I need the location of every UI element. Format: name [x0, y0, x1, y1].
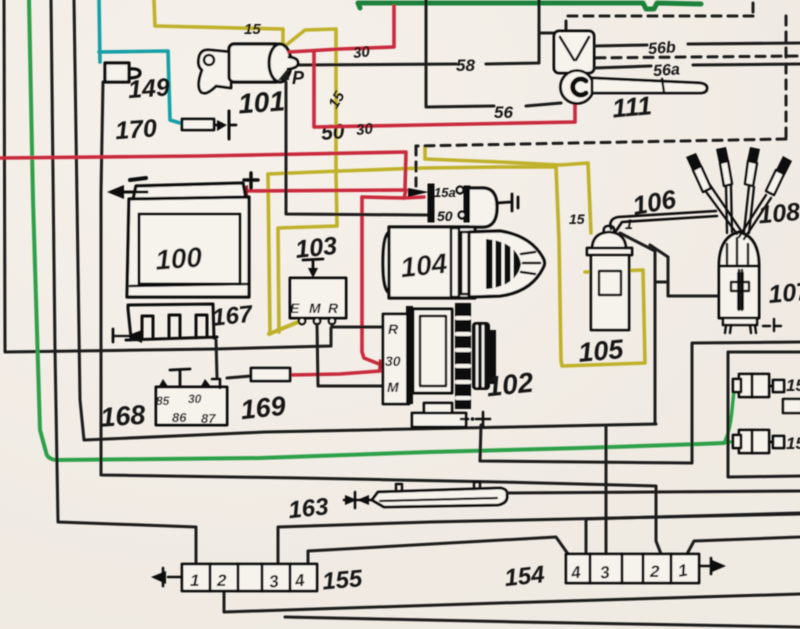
alternator 102 mounting foot: [424, 403, 452, 414]
svg-text:85: 85: [156, 394, 170, 408]
wire terminal 1 of 105 down to distributor body: [620, 233, 719, 424]
svg-text:2: 2: [649, 562, 660, 581]
svg-text:157: 157: [786, 434, 800, 453]
alternator 102 body: [406, 306, 413, 404]
svg-text:111: 111: [611, 90, 653, 123]
battery 100: [127, 183, 249, 297]
arrowhead black into starter terminal 15a: [408, 188, 429, 197]
relay 168 box: [156, 387, 227, 425]
svg-text:M: M: [387, 379, 399, 395]
wire left vertical 3 (to node of suppressor 105 line): [74, 0, 656, 440]
wire row to 154 pin4 from right edge: [586, 513, 800, 554]
svg-text:86: 86: [172, 410, 187, 425]
svg-text:155: 155: [321, 565, 364, 595]
svg-text:105: 105: [577, 334, 625, 368]
svg-text:30: 30: [352, 43, 371, 62]
wire row to 154 pin1 from right edge: [687, 537, 800, 554]
svg-text:50: 50: [320, 120, 345, 145]
connector 150: [733, 374, 784, 397]
regulator 103 terminals: [299, 318, 335, 324]
regulator 103 box: [290, 278, 346, 318]
wire red from resistor 169 to alternator: [290, 371, 380, 375]
wire yellow 15 from coil over to vertical run: [278, 29, 337, 332]
alternator 102 pulley: [472, 322, 490, 390]
spark plug boots 108: [693, 161, 784, 195]
alternator 102 rectifier ladder: [455, 303, 471, 409]
svg-text:102: 102: [485, 367, 535, 403]
svg-text:2: 2: [216, 571, 227, 590]
svg-text:168: 168: [99, 400, 146, 433]
wire red 30 branch to turn switch 111: [314, 51, 575, 127]
suppressor capacitor 105: [587, 226, 632, 330]
high tension cable 106 to distributor: [610, 211, 716, 229]
wire yellow into regulator 103 terminal E: [269, 322, 298, 334]
wire yellow 15 horizontal to regulator side: [268, 175, 270, 334]
svg-text:1: 1: [625, 216, 633, 232]
wire yellow lower row to component 105 area: [268, 167, 645, 366]
svg-text:R: R: [388, 321, 399, 337]
svg-text:E: E: [290, 300, 300, 316]
spark plug cables of 108: [704, 185, 771, 239]
svg-text:87: 87: [201, 411, 216, 426]
svg-text:50: 50: [437, 208, 453, 224]
wire left vertical 1 (to node at y352): [4, 0, 331, 352]
turn signal switch 111: [554, 31, 707, 104]
connector 155 ground arrow: [163, 568, 182, 586]
wire black verticals crossing green bus: [426, 0, 539, 8]
svg-text:150: 150: [786, 376, 800, 395]
wire red long feed at y155: [0, 152, 406, 190]
small middle connector: [783, 399, 800, 413]
fuse strip 167 ground arrow: [126, 330, 142, 343]
wire left vertical 4 (from connector 149 down to connector 154 pin 2): [101, 82, 661, 554]
alternator 102 terminal block: [383, 314, 409, 404]
connector 154: [566, 554, 699, 583]
connector 157: [733, 430, 784, 453]
wire regulator R down to ground row: [330, 328, 333, 346]
wire teal from top to connector 149 and fuse 170: [99, 0, 100, 62]
wire red from battery plus: [236, 190, 406, 198]
starter 104 field grille: [486, 239, 521, 289]
svg-text:58: 58: [456, 56, 475, 75]
wire green left vertical: [29, 0, 724, 460]
wire 154 pin3 up to suppressor row: [605, 427, 608, 554]
wire line 58 from coil nose: [299, 64, 456, 65]
battery plus sign: [244, 173, 258, 188]
wire yellow upper row to component 105 stub: [425, 147, 591, 233]
svg-text:107: 107: [767, 277, 800, 309]
battery minus terminal and arrow to ground line: [130, 178, 146, 180]
arrowhead red into alternator terminal: [378, 359, 392, 371]
distributor 108 body: [719, 266, 759, 318]
wire green top bus: [358, 3, 701, 9]
svg-text:167: 167: [211, 301, 255, 332]
wire black 50 from coil to starter solenoid: [286, 82, 427, 215]
svg-text:15a: 15a: [434, 185, 456, 200]
wire 56b from switch to right edge: [594, 43, 800, 46]
svg-text:15: 15: [244, 21, 261, 38]
wire fuse strip 167 to relay 168 terminal 30: [216, 340, 217, 377]
svg-text:108: 108: [757, 198, 800, 230]
wire regulator R to alternator R: [332, 324, 383, 327]
wire relay 168 to resistor 169: [227, 376, 251, 378]
wire red 30 from coil up to green bus: [289, 6, 394, 52]
svg-text:30: 30: [188, 392, 202, 406]
component 163 ground arrow: [344, 492, 372, 508]
wire from alternator ground down and over to right edge: [480, 342, 800, 463]
wire yellow 15 from top-left to coil 101: [154, 0, 283, 46]
connector 149: [105, 63, 140, 82]
svg-text:101: 101: [237, 85, 286, 119]
svg-text:M: M: [309, 300, 321, 316]
turn signal switch 111 dashed boundary box: [416, 3, 800, 186]
svg-text:56: 56: [494, 103, 513, 122]
relay 168 terminal tabs: [158, 379, 169, 388]
regulator 103 antenna/ground symbol: [303, 259, 323, 273]
svg-text:100: 100: [154, 241, 203, 275]
alternator 102 ground symbol: [461, 418, 468, 421]
wire red branch to starter 104: [404, 197, 424, 198]
svg-text:154: 154: [503, 561, 546, 592]
wire 155 pin2 to right edge: [224, 591, 800, 612]
relay 168 ground symbol: [170, 369, 190, 387]
starter motor 104 solenoid terminals: [428, 184, 470, 222]
connector 155: [182, 564, 317, 591]
svg-text:169: 169: [239, 391, 287, 426]
svg-text:170: 170: [114, 114, 158, 145]
svg-text:P: P: [292, 68, 305, 88]
distributor ground stub: [763, 319, 781, 331]
ignition coil 101: [198, 44, 298, 93]
svg-text:163: 163: [287, 493, 330, 524]
fuse strip 167: [126, 304, 217, 340]
resistor 169: [251, 368, 290, 381]
starter motor 104 solenoid body: [470, 188, 497, 227]
svg-text:R: R: [328, 300, 339, 316]
component 163 heater pan: [372, 488, 507, 507]
arrowhead red at battery plus: [233, 185, 248, 198]
svg-text:30: 30: [355, 120, 374, 139]
wire regulator M to alternator: [317, 324, 383, 386]
svg-text:56a: 56a: [653, 61, 681, 80]
wire bottom row to right edge: [285, 617, 800, 627]
wire left vertical 2 (to connector 155 pin 1): [51, 0, 196, 564]
wire line 56 into switch 111: [526, 103, 561, 106]
svg-text:15: 15: [569, 211, 585, 227]
wire from 163 to right edge: [507, 491, 800, 493]
distributor 108 cap: [719, 232, 759, 266]
svg-text:30: 30: [385, 353, 401, 369]
wire stub into switch 111 body: [539, 32, 556, 35]
starter 104 ground stub: [497, 194, 518, 211]
wire red down to alternator 102 terminal: [362, 197, 384, 366]
svg-text:56b: 56b: [648, 39, 677, 58]
svg-text:1: 1: [190, 571, 199, 590]
fuse 170: [182, 111, 236, 139]
connector 154 ground arrow: [699, 558, 714, 574]
wire row 155 pin3 to right edge: [278, 514, 800, 564]
right connector housing box: [728, 352, 800, 477]
wire 56a from switch to right edge: [594, 64, 800, 68]
wire green branch to connector 157: [724, 441, 737, 443]
wire black vertical at x426 (to line 56): [426, 0, 494, 107]
wire green branch to connector 150: [724, 388, 738, 443]
wire row 155 pin4 to 154 pin4: [308, 537, 568, 564]
svg-text:104: 104: [399, 248, 449, 284]
svg-text:149: 149: [127, 73, 171, 104]
wire black vertical at x539 (line 58): [486, 4, 539, 64]
starter motor 104 body: [383, 227, 545, 298]
